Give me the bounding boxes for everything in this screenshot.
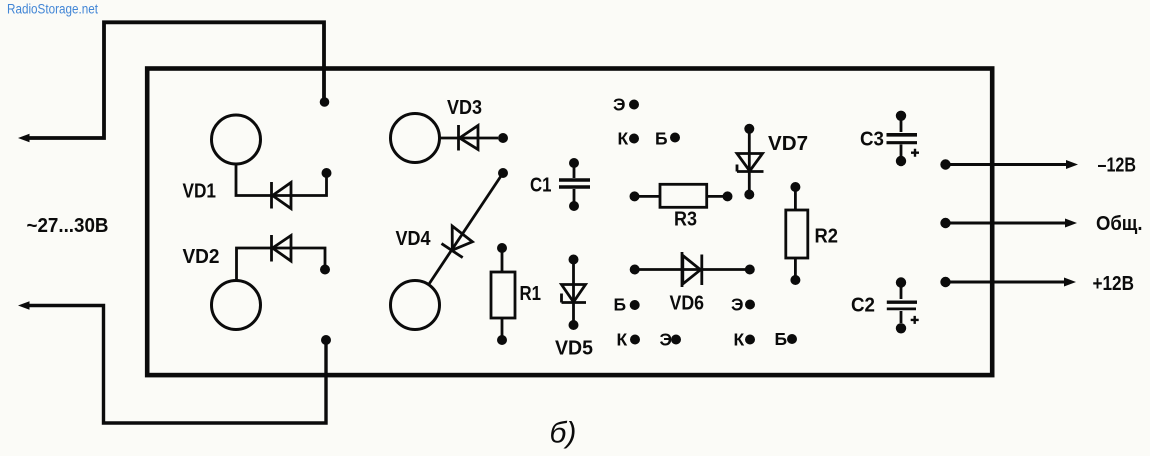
diode VD5: [562, 255, 587, 331]
svg-text:R2: R2: [815, 226, 839, 248]
svg-text:К: К: [734, 330, 745, 350]
svg-text:Б: Б: [655, 129, 668, 149]
pin dot K bottom-left: [630, 335, 640, 345]
svg-text:C2: C2: [851, 295, 875, 317]
diode VD7: [737, 124, 764, 200]
resistor R3: [630, 184, 733, 207]
transistor pad T2: [212, 281, 261, 330]
svg-text:VD3: VD3: [447, 97, 482, 119]
svg-text:+12В: +12В: [1093, 273, 1135, 295]
svg-text:б): б): [550, 417, 577, 450]
pin dot E bottom-left: [671, 335, 681, 345]
svg-text:RadioStorage.net: RadioStorage.net: [7, 2, 98, 17]
board outline: [147, 69, 992, 376]
svg-text:C1: C1: [530, 175, 552, 197]
svg-text:Э: Э: [731, 295, 743, 315]
svg-text:VD1: VD1: [183, 181, 217, 203]
svg-text:VD4: VD4: [396, 228, 432, 250]
pin dot E top: [629, 100, 639, 110]
transistor pad T1: [212, 115, 261, 164]
pin dot E mid-right: [745, 300, 755, 310]
diode VD1: [236, 164, 332, 209]
diode VD4: [429, 168, 508, 285]
resistor R1: [491, 243, 515, 345]
capacitor C1: [559, 158, 590, 211]
wire input bottom: [18, 301, 326, 423]
svg-text:К: К: [618, 129, 629, 149]
transistor pad T3: [391, 114, 440, 163]
transistor pad T4: [391, 281, 440, 330]
svg-text:C3: C3: [860, 129, 884, 151]
capacitor C3: [887, 111, 920, 167]
pin dot B top: [670, 133, 680, 143]
wire output -12V: [940, 159, 1078, 169]
svg-text:Э: Э: [660, 330, 672, 350]
node top junction: [320, 97, 330, 107]
node bottom junction: [321, 335, 331, 345]
svg-text:VD5: VD5: [555, 338, 593, 360]
svg-text:Б: Б: [775, 329, 788, 349]
wire input top: [18, 22, 324, 142]
svg-text:VD7: VD7: [768, 133, 808, 155]
svg-text:~27...30В: ~27...30В: [27, 214, 109, 237]
svg-text:VD2: VD2: [183, 246, 220, 268]
svg-text:R1: R1: [520, 283, 542, 305]
svg-text:Б: Б: [614, 295, 627, 315]
resistor R2: [786, 182, 808, 285]
svg-text:Общ.: Общ.: [1096, 213, 1143, 235]
diode VD3: [440, 125, 508, 151]
diode VD6: [630, 252, 755, 287]
svg-text:К: К: [617, 330, 628, 350]
svg-text:Э: Э: [613, 95, 625, 115]
capacitor C2: [887, 277, 919, 333]
diode VD2: [237, 235, 331, 281]
pin dot B mid-left: [630, 300, 640, 310]
wire output +12V: [940, 277, 1076, 287]
svg-text:VD6: VD6: [670, 293, 705, 315]
wire output common: [940, 218, 1077, 228]
pin dot K top: [629, 134, 639, 144]
svg-text:R3: R3: [674, 209, 697, 231]
pin dot B bottom-right: [787, 334, 797, 344]
pin dot K bottom-right: [745, 335, 755, 345]
svg-text:–12В: –12В: [1098, 155, 1137, 177]
